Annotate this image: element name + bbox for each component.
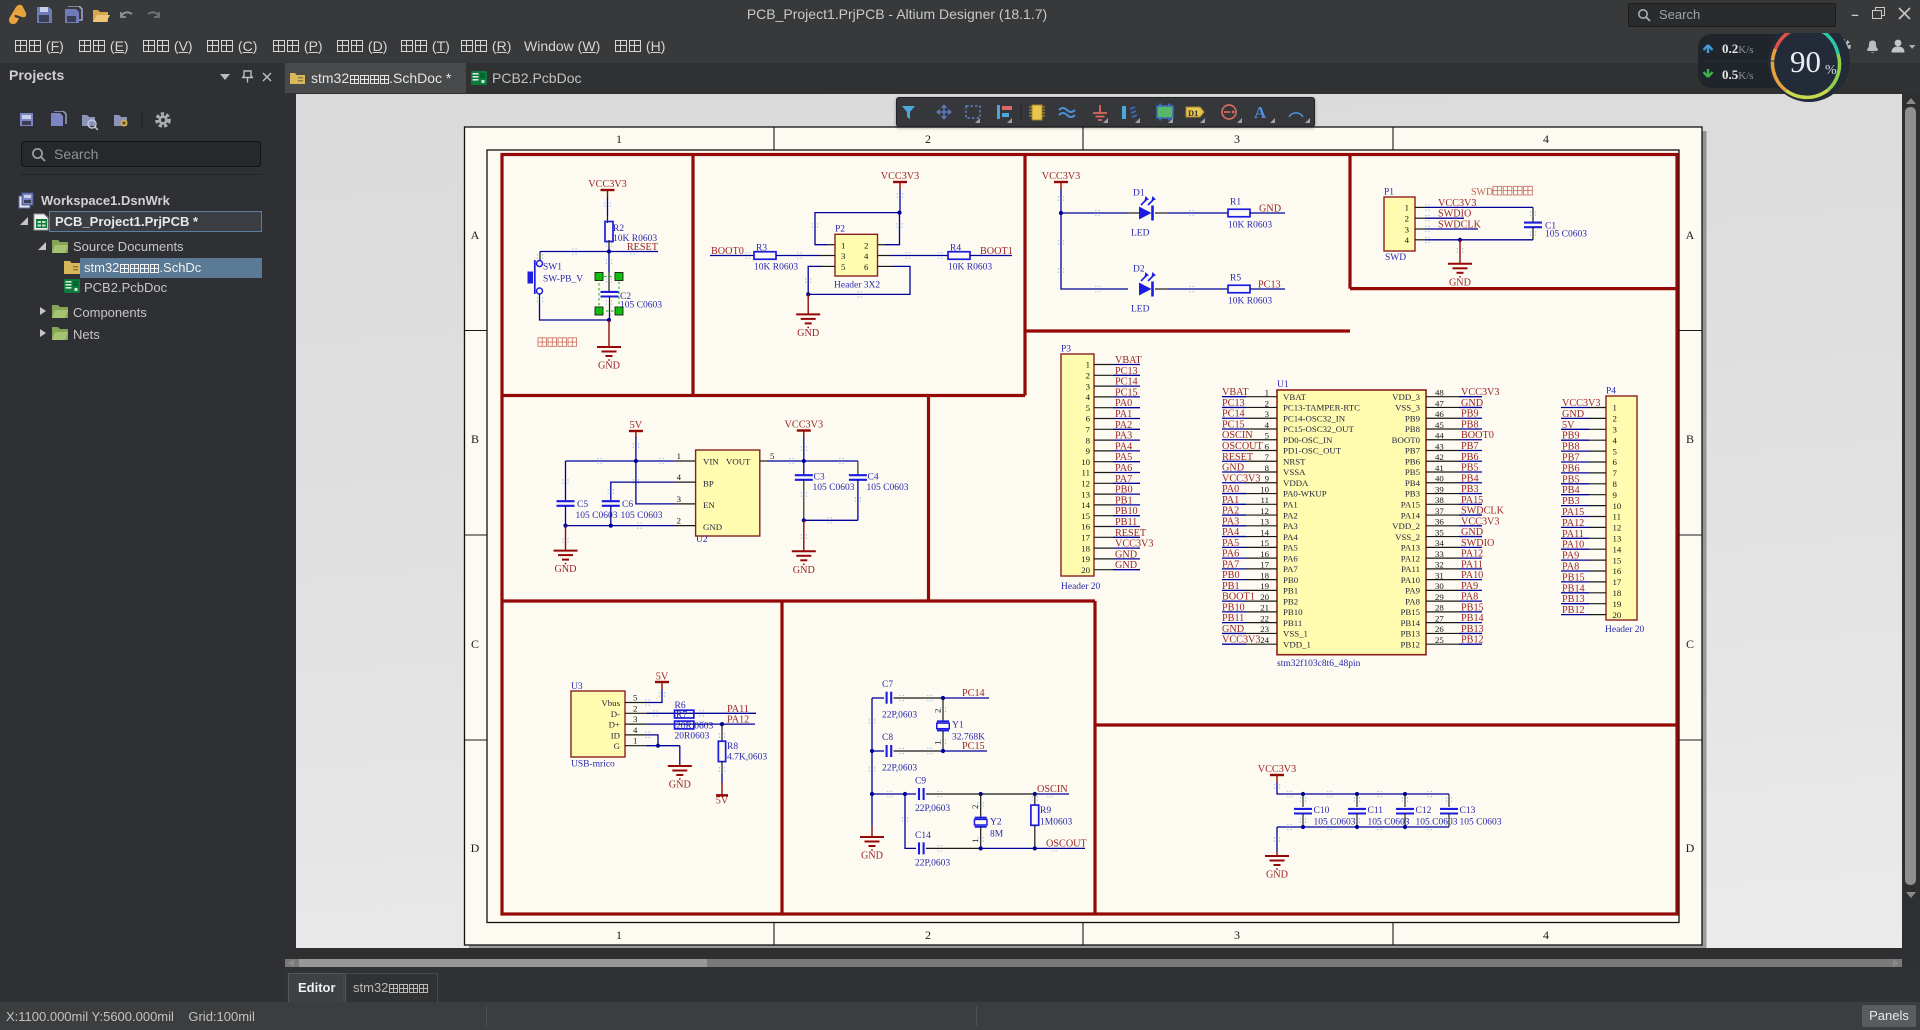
svg-text:R6: R6 [675, 701, 686, 711]
svg-text:11: 11 [1261, 495, 1269, 505]
svg-text:VCC3V3: VCC3V3 [1258, 764, 1297, 775]
svg-text:PB11: PB11 [1222, 613, 1244, 624]
svg-text:PB7: PB7 [1461, 441, 1479, 452]
svg-text:PB2: PB2 [1283, 596, 1298, 606]
svg-text:5: 5 [1086, 403, 1091, 413]
svg-text:B: B [1686, 432, 1694, 446]
svg-text:1: 1 [1613, 403, 1617, 413]
svg-text:PB12: PB12 [1400, 639, 1420, 649]
svg-text:13: 13 [1613, 534, 1622, 544]
wire BP to C6 [611, 482, 696, 501]
wire D- row [625, 712, 756, 714]
U1 pin 23 net GND [1222, 624, 1277, 635]
power port 5V (R8, inverted) [716, 762, 729, 807]
svg-text:PC15: PC15 [962, 741, 985, 752]
svg-text:21: 21 [1260, 603, 1269, 613]
svg-text:15: 15 [1260, 538, 1269, 548]
net label GND (R1) [1250, 204, 1285, 215]
svg-text:PA10: PA10 [1401, 575, 1421, 585]
svg-text:8M: 8M [990, 830, 1004, 840]
U1 pin 38 net PA15 [1426, 495, 1483, 506]
U1 pin 48 net VCC3V3 [1426, 387, 1500, 398]
svg-text:PB9: PB9 [1562, 431, 1580, 442]
svg-text:4: 4 [1265, 420, 1270, 430]
svg-text:13: 13 [1260, 517, 1269, 527]
wire caps bottom rail [1277, 825, 1449, 852]
svg-text:GND: GND [1266, 870, 1288, 881]
U1 pin 11 net PA1 [1222, 495, 1277, 506]
svg-text:11: 11 [1613, 512, 1621, 522]
capacitor C12 [1396, 794, 1458, 828]
header P2 3X2 [834, 225, 880, 291]
net label PB6 (P4 pin 7) [1561, 463, 1606, 474]
svg-text:PB0: PB0 [1222, 570, 1240, 581]
svg-text:8: 8 [1613, 479, 1618, 489]
svg-text:PB12: PB12 [1461, 635, 1484, 646]
svg-text:41: 41 [1435, 463, 1444, 473]
svg-text:18: 18 [1260, 570, 1269, 580]
net label PC14 (P3 pin 3) [1094, 377, 1140, 388]
svg-text:P1: P1 [1384, 188, 1394, 198]
svg-text:5V: 5V [1562, 420, 1575, 431]
svg-text:PB3: PB3 [1405, 489, 1421, 499]
svg-text:USB-mrico: USB-mrico [571, 760, 615, 770]
svg-text:VCC3V3: VCC3V3 [1042, 171, 1081, 182]
svg-text:3: 3 [1234, 928, 1240, 942]
net label PB4 (P4 pin 9) [1561, 485, 1606, 496]
svg-text:6: 6 [1086, 414, 1091, 424]
svg-text:12: 12 [1613, 523, 1622, 533]
net label RESET (P3 pin 17) [1094, 528, 1147, 539]
net label PC15 [940, 741, 987, 753]
U1 pin 14 net PA4 [1222, 527, 1277, 538]
capacitor C5 [557, 461, 618, 526]
U1 pin 4 net PC15 [1222, 419, 1277, 430]
net label PA10 (P4 pin 14) [1561, 540, 1606, 551]
svg-text:4: 4 [1613, 435, 1618, 445]
net label OSCIN [979, 784, 1069, 796]
svg-text:8: 8 [1086, 435, 1091, 445]
svg-text:D: D [471, 841, 480, 855]
U1 pin 6 net OSCOUT [1222, 441, 1277, 452]
svg-text:GND: GND [793, 565, 815, 576]
svg-text:34: 34 [1435, 538, 1444, 548]
net label OSCOUT [979, 838, 1088, 850]
net label PB5 (P4 pin 8) [1561, 474, 1606, 485]
svg-text:PA11: PA11 [1562, 529, 1584, 540]
header P3 [1061, 345, 1101, 593]
svg-text:PA12: PA12 [1461, 549, 1483, 560]
svg-text:C8: C8 [882, 733, 893, 743]
svg-text:C4: C4 [868, 473, 879, 483]
net label PA0 (P3 pin 5) [1094, 398, 1140, 409]
svg-text:105 C0603: 105 C0603 [1416, 818, 1458, 828]
svg-text:9: 9 [1086, 446, 1091, 456]
U1 pin 40 net PB4 [1426, 473, 1482, 484]
svg-text:PB11: PB11 [1283, 618, 1302, 628]
svg-text:OSCIN: OSCIN [1222, 430, 1253, 441]
svg-text:9: 9 [1265, 474, 1270, 484]
U1 pin 27 net PB14 [1426, 613, 1484, 624]
capacitor C10 [1294, 794, 1356, 828]
svg-text:Vbus: Vbus [601, 698, 620, 708]
svg-text:PA2: PA2 [1283, 510, 1298, 520]
circuit block partition borders [502, 155, 1677, 915]
switch SW1 SW-PB_V [528, 260, 584, 294]
svg-text:PB7: PB7 [1405, 446, 1421, 456]
svg-text:20: 20 [1081, 565, 1090, 575]
svg-text:VSS_3: VSS_3 [1395, 403, 1421, 413]
net label PA5 (P3 pin 10) [1094, 452, 1140, 463]
U1 pin 9 net VCC3V3 [1222, 473, 1277, 484]
svg-text:10K R0603: 10K R0603 [1228, 297, 1272, 307]
svg-text:VCC3V3: VCC3V3 [785, 420, 824, 431]
U1 pin 26 net PB13 [1426, 624, 1484, 635]
svg-text:PA7: PA7 [1283, 564, 1298, 574]
svg-text:46: 46 [1435, 409, 1444, 419]
schematic sheet [469, 131, 1707, 949]
svg-text:PC13: PC13 [1115, 366, 1138, 377]
svg-text:PA6: PA6 [1222, 549, 1239, 560]
header P1 SWD [1384, 188, 1415, 264]
svg-text:35: 35 [1435, 527, 1444, 537]
svg-text:6: 6 [1265, 441, 1270, 451]
ground (C5) [554, 526, 578, 576]
U1 pin 42 net PB6 [1426, 452, 1482, 463]
svg-text:PB4: PB4 [1562, 485, 1580, 496]
net label PA12 [727, 715, 749, 726]
label SWD仿真接口 [1471, 186, 1532, 198]
ground (caps) [1265, 852, 1289, 881]
svg-text:PB9: PB9 [1405, 413, 1421, 423]
svg-text:PA11: PA11 [1461, 559, 1483, 570]
svg-text:15: 15 [1613, 555, 1622, 565]
svg-text:10: 10 [1081, 457, 1090, 467]
svg-text:PA2: PA2 [1222, 506, 1239, 517]
resistor R5 [1228, 274, 1272, 307]
svg-text:R1: R1 [1230, 198, 1241, 208]
net label GND (P3 pin 20) [1094, 560, 1140, 571]
svg-text:105 C0603: 105 C0603 [576, 511, 618, 521]
header P4 [1605, 387, 1645, 636]
svg-text:24: 24 [1260, 635, 1269, 645]
svg-text:R3: R3 [756, 244, 767, 254]
svg-text:40: 40 [1435, 474, 1444, 484]
ground (swd block) [1448, 240, 1472, 288]
svg-text:C: C [1686, 637, 1694, 651]
wire RESET node horizontal [540, 249, 658, 253]
svg-text:PC13: PC13 [1222, 398, 1245, 409]
wire VCC3V3 to R2 [607, 197, 609, 223]
capacitor C8 [872, 733, 940, 774]
ground (usb) [668, 746, 692, 791]
svg-text:Header 3X2: Header 3X2 [834, 281, 880, 291]
svg-text:PA4: PA4 [1283, 532, 1298, 542]
svg-text:VSS_2: VSS_2 [1395, 532, 1420, 542]
svg-text:2: 2 [1405, 214, 1409, 224]
svg-text:P3: P3 [1061, 345, 1071, 355]
svg-text:PA1: PA1 [1283, 500, 1298, 510]
svg-text:PB10: PB10 [1115, 506, 1138, 517]
regulator U2 [677, 450, 775, 545]
svg-text:VDD_1: VDD_1 [1283, 639, 1311, 649]
svg-text:GND: GND [703, 522, 722, 532]
svg-text:PA14: PA14 [1401, 510, 1421, 520]
svg-text:VSS_1: VSS_1 [1283, 629, 1308, 639]
svg-text:PB1: PB1 [1222, 581, 1240, 592]
wire C3/C4 gnd rail [802, 518, 858, 522]
svg-text:PA3: PA3 [1222, 516, 1239, 527]
svg-text:19: 19 [1613, 599, 1622, 609]
net label VBAT (P3 pin 1) [1094, 355, 1142, 366]
wire VCC3V3 down [899, 189, 901, 213]
svg-text:BOOT1: BOOT1 [1222, 592, 1255, 603]
svg-text:0.5K/s: 0.5K/s [1722, 67, 1754, 82]
svg-text:PB13: PB13 [1400, 629, 1420, 639]
resistor R4 [948, 244, 992, 273]
power port 5V (regulator) [629, 420, 643, 438]
svg-text:PA4: PA4 [1115, 441, 1132, 452]
wire left rail (crystal block) [870, 698, 874, 826]
svg-text:GND: GND [1562, 409, 1584, 420]
net label PA3 (P3 pin 8) [1094, 431, 1140, 442]
U1 pin 25 net PB12 [1426, 635, 1484, 646]
U1 pin 2 net PC13 [1222, 398, 1277, 409]
net label PA6 (P3 pin 11) [1094, 463, 1140, 474]
capacitor C3 [795, 461, 855, 520]
svg-text:PA12: PA12 [727, 715, 749, 726]
svg-text:14: 14 [1613, 544, 1622, 554]
svg-text:C7: C7 [882, 680, 893, 690]
U1 pin 24 net VCC3V3 [1222, 635, 1277, 646]
svg-text:C11: C11 [1368, 806, 1384, 816]
svg-text:20: 20 [1613, 610, 1622, 620]
capacitor C4 [849, 461, 909, 520]
svg-text:PB7: PB7 [1562, 453, 1580, 464]
svg-text:90: 90 [1790, 44, 1821, 79]
capacitor C1 [1524, 207, 1587, 239]
U1 pin 7 net RESET [1222, 452, 1277, 463]
svg-text:42: 42 [1435, 452, 1444, 462]
U1 pin 28 net PB15 [1426, 602, 1484, 613]
resistor R8 [718, 724, 767, 762]
svg-text:4: 4 [1543, 132, 1549, 146]
wire pin2 up to vcc junction [878, 211, 902, 245]
U1 pin 44 net BOOT0 [1426, 430, 1494, 441]
svg-text:5: 5 [770, 451, 775, 461]
U1 pin 5 net OSCIN [1222, 430, 1277, 441]
svg-text:48: 48 [1435, 388, 1444, 398]
svg-text:PA0-WKUP: PA0-WKUP [1283, 489, 1327, 499]
svg-text:45: 45 [1435, 420, 1444, 430]
U1 pin 10 net PA0 [1222, 484, 1277, 495]
svg-text:22P,0603: 22P,0603 [882, 711, 917, 721]
svg-text:105 C0603: 105 C0603 [1314, 818, 1356, 828]
capacitor C9 [915, 777, 1035, 815]
svg-text:Y1: Y1 [952, 721, 964, 731]
svg-text:1: 1 [633, 736, 637, 746]
svg-text:PC14: PC14 [1115, 377, 1138, 388]
U1 pin 18 net PB0 [1222, 570, 1277, 581]
svg-text:9: 9 [1613, 490, 1618, 500]
wire 5V down to rail/EN [634, 437, 696, 504]
svg-text:3: 3 [841, 251, 846, 261]
wire pin5/pin6 to GND [806, 266, 910, 296]
svg-text:16: 16 [1260, 549, 1269, 559]
svg-text:4: 4 [633, 725, 638, 735]
svg-text:2: 2 [1265, 398, 1269, 408]
U1 pin 35 net GND [1426, 527, 1483, 538]
svg-text:PA6: PA6 [1283, 553, 1298, 563]
svg-text:10K R0603: 10K R0603 [754, 263, 798, 273]
net label PB15 (P4 pin 17) [1561, 572, 1606, 583]
U1 pin 21 net PB10 [1222, 602, 1277, 613]
svg-text:OSCOUT: OSCOUT [1222, 441, 1264, 452]
net label PB7 (P4 pin 6) [1561, 453, 1606, 464]
junction C2/GND [607, 318, 611, 322]
svg-text:D1: D1 [1133, 189, 1145, 199]
svg-text:B: B [471, 432, 479, 446]
svg-text:4: 4 [1405, 235, 1410, 245]
svg-text:105 C0603: 105 C0603 [621, 511, 663, 521]
svg-text:3: 3 [677, 494, 682, 504]
power port VCC3V3 (led block) [1042, 171, 1081, 189]
svg-text:16: 16 [1081, 522, 1090, 532]
net label PB3 (P4 pin 10) [1561, 496, 1606, 507]
svg-text:PB4: PB4 [1405, 478, 1421, 488]
power port 5V (usb) [655, 672, 669, 690]
svg-text:VCC3V3: VCC3V3 [881, 171, 920, 182]
svg-text:PA10: PA10 [1562, 540, 1584, 551]
svg-text:R7: R7 [676, 711, 687, 721]
svg-text:19: 19 [1260, 581, 1269, 591]
svg-text:3: 3 [633, 714, 638, 724]
net label PC14 [940, 688, 989, 700]
net label PA12 (P4 pin 12) [1561, 518, 1606, 529]
svg-text:2: 2 [933, 709, 943, 713]
svg-text:PA13: PA13 [1401, 543, 1421, 553]
U1 pin 8 net GND [1222, 463, 1277, 474]
svg-text:C12: C12 [1416, 806, 1432, 816]
U1 pin 1 net VBAT [1222, 387, 1277, 398]
svg-text:1: 1 [616, 132, 622, 146]
svg-text:VCC3V3: VCC3V3 [1461, 387, 1500, 398]
svg-text:VOUT: VOUT [726, 457, 751, 467]
svg-text:37: 37 [1435, 506, 1444, 516]
svg-text:22P,0603: 22P,0603 [915, 804, 950, 814]
svg-text:PC15: PC15 [1222, 419, 1245, 430]
svg-text:GND: GND [1259, 204, 1281, 215]
U1 pin 29 net PA8 [1426, 592, 1482, 603]
net label PA11 (P4 pin 13) [1561, 529, 1606, 540]
svg-text:EN: EN [703, 500, 715, 510]
capacitor C2 (selected) [595, 252, 662, 321]
svg-text:5: 5 [633, 693, 638, 703]
wire VOUT rail [760, 459, 858, 463]
svg-text:31: 31 [1435, 570, 1444, 580]
svg-text:stm32f103c8t6_48pin: stm32f103c8t6_48pin [1277, 658, 1361, 669]
net label PC13 (R5) [1250, 280, 1285, 291]
svg-text:3: 3 [1234, 132, 1240, 146]
svg-text:PB8: PB8 [1562, 442, 1580, 453]
svg-text:PB14: PB14 [1562, 583, 1585, 594]
mcu U1 stm32f103c8t6 [1277, 380, 1426, 669]
svg-text:PA9: PA9 [1405, 586, 1420, 596]
svg-text:PA2: PA2 [1115, 420, 1132, 431]
svg-text:LED: LED [1131, 305, 1150, 315]
svg-text:BOOT0: BOOT0 [1392, 435, 1421, 445]
net label GND (P4 pin 2) [1561, 409, 1606, 420]
net label PB1 (P3 pin 14) [1094, 495, 1140, 506]
svg-text:44: 44 [1435, 431, 1444, 441]
svg-text:20R0603: 20R0603 [675, 732, 710, 742]
svg-text:GND: GND [861, 851, 883, 862]
power port VCC3V3 (boot block) [881, 171, 920, 189]
svg-text:PC13: PC13 [1258, 280, 1281, 291]
wire VCC3V3 down to D2 row [1059, 189, 1128, 289]
svg-text:4: 4 [1086, 392, 1091, 402]
svg-text:29: 29 [1435, 592, 1444, 602]
svg-text:3: 3 [1265, 409, 1270, 419]
svg-text:39: 39 [1435, 484, 1444, 494]
resistor R7 [675, 721, 694, 729]
diode D2 LED [1131, 265, 1156, 315]
svg-text:PC14: PC14 [1222, 409, 1245, 420]
ground (crystal block) [860, 826, 884, 862]
svg-text:1: 1 [1405, 203, 1409, 213]
svg-text:VCC3V3: VCC3V3 [1115, 539, 1154, 550]
svg-text:1M0603: 1M0603 [1040, 818, 1072, 828]
svg-text:SW-PB_V: SW-PB_V [543, 275, 583, 285]
wire Vbus to 5V [625, 689, 662, 703]
svg-text:2: 2 [633, 703, 637, 713]
net label PB12 (P4 pin 20) [1561, 605, 1606, 616]
net label VCC3V3 (P4 pin 1) [1561, 398, 1606, 409]
svg-text:GND: GND [1115, 560, 1137, 571]
U1 pin 36 net VCC3V3 [1426, 516, 1500, 527]
svg-text:D: D [1686, 841, 1695, 855]
svg-text:6: 6 [864, 262, 869, 272]
svg-text:4: 4 [864, 251, 869, 261]
U1 pin 41 net PB5 [1426, 463, 1482, 474]
svg-text:105 C0603: 105 C0603 [867, 483, 909, 493]
U1 pin 31 net PA10 [1426, 570, 1483, 581]
svg-text:22P,0603: 22P,0603 [915, 859, 950, 869]
svg-text:VBAT: VBAT [1283, 392, 1307, 402]
net label PB13 (P4 pin 19) [1561, 594, 1606, 605]
svg-text:VDD_3: VDD_3 [1392, 392, 1420, 402]
svg-text:PA8: PA8 [1562, 562, 1579, 573]
U1 pin 45 net PB8 [1426, 419, 1482, 430]
svg-text:17: 17 [1613, 577, 1622, 587]
svg-text:36: 36 [1435, 517, 1444, 527]
svg-text:RESET: RESET [1222, 452, 1254, 463]
svg-text:1: 1 [970, 839, 980, 843]
svg-text:3: 3 [1405, 224, 1410, 234]
svg-text:33: 33 [1435, 549, 1444, 559]
svg-text:VCC3V3: VCC3V3 [1438, 198, 1477, 209]
net label PA8 (P4 pin 16) [1561, 562, 1606, 573]
svg-text:PB5: PB5 [1405, 467, 1421, 477]
svg-text:SWD: SWD [1471, 187, 1493, 198]
power port VCC3V3 (caps) [1258, 764, 1297, 782]
power port VCC3V3 (regulator out) [785, 420, 824, 462]
wire P1 pin4 / gnd rail [1415, 238, 1533, 242]
capacitor C7 [872, 680, 940, 721]
svg-text:10: 10 [1613, 501, 1622, 511]
svg-text:PB8: PB8 [1405, 424, 1421, 434]
svg-text:C3: C3 [814, 473, 825, 483]
